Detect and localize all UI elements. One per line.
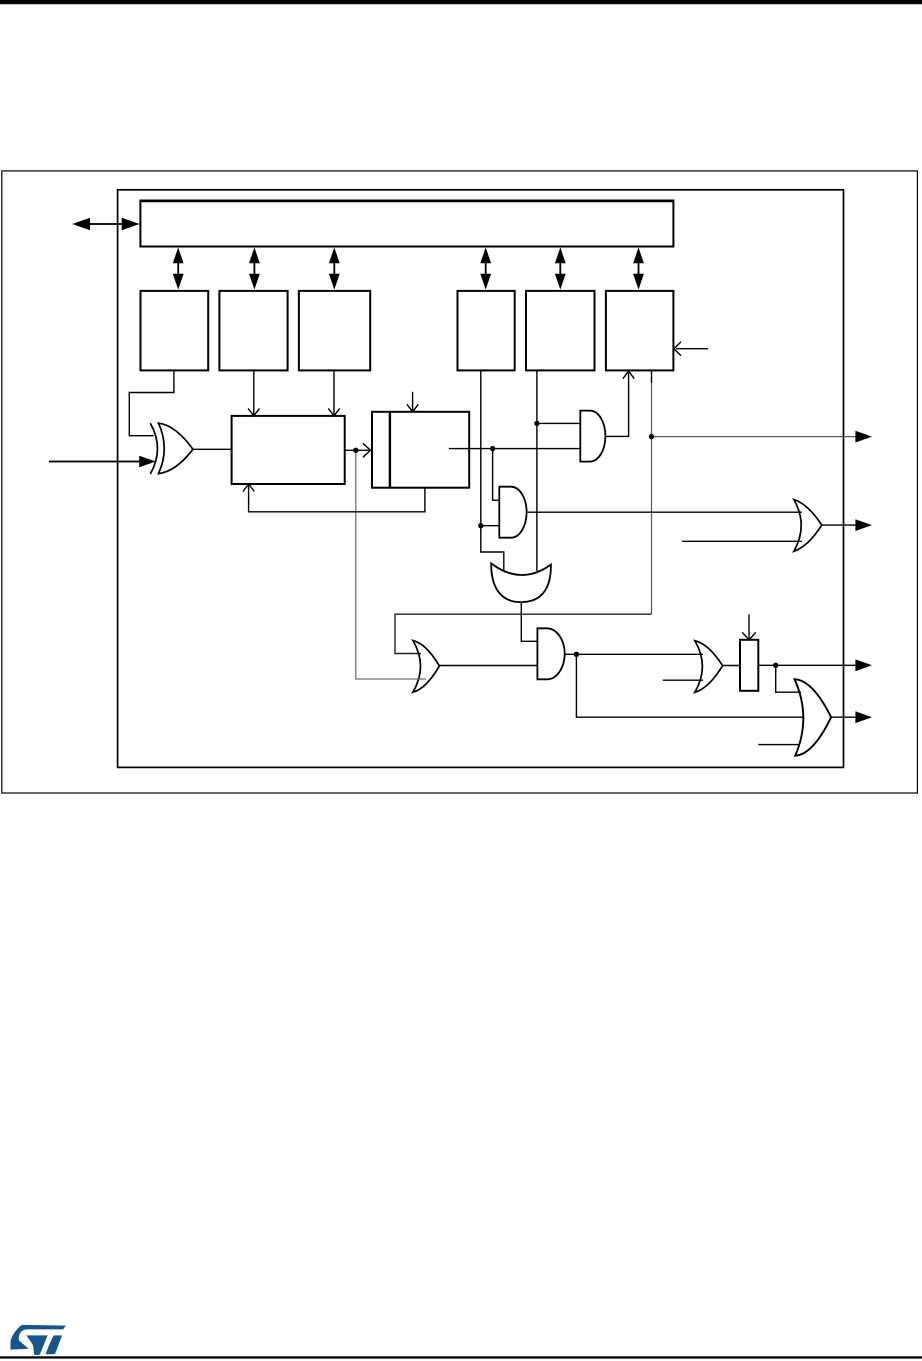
jog wire to middle AND upper input xyxy=(493,449,500,501)
vertical bus arrows to registers xyxy=(173,247,644,289)
prescaler output wire xyxy=(449,448,580,450)
arrowhead left into R6 right xyxy=(674,342,681,356)
lower AND gate xyxy=(537,628,564,679)
bottom-left OR gate xyxy=(413,641,440,693)
rect output wire 3 xyxy=(758,664,856,666)
down-facing OR gate xyxy=(491,563,551,602)
XOR gate xyxy=(150,423,193,474)
wire y614 to bottom-left OR xyxy=(395,614,652,653)
open arrowheads xyxy=(243,342,756,640)
wire R1 bottom to XOR top input xyxy=(129,371,174,436)
bottom-left OR output xyxy=(439,665,537,667)
page top rule xyxy=(0,0,922,4)
branch down to big OR top input xyxy=(776,665,801,692)
ST logo xyxy=(10,1325,65,1355)
middle AND gate xyxy=(499,487,526,538)
middle AND output to OR2 xyxy=(527,511,802,513)
R6 descender wire xyxy=(651,371,653,383)
OR3 output to rect xyxy=(723,665,740,667)
crescent OR output elbow xyxy=(521,602,537,641)
upper AND output wire up to R6 xyxy=(605,373,628,436)
gray wire from counter output down to bottom-left OR xyxy=(356,450,426,679)
register box R3 xyxy=(299,291,370,371)
figure outer frame xyxy=(2,171,918,793)
R4 descender wire xyxy=(481,371,504,572)
register box R5 xyxy=(526,291,595,371)
prescaler box xyxy=(372,412,469,488)
register box R4 xyxy=(458,291,515,371)
register box R6 xyxy=(606,291,674,371)
arrowhead into prescaler top xyxy=(407,404,418,412)
tap to upper AND top input xyxy=(537,422,580,424)
big OR lower input stub xyxy=(758,744,800,746)
arrowhead down into small rect top xyxy=(742,632,756,640)
arrowhead into counter from R3 xyxy=(328,408,339,416)
page bottom rule xyxy=(0,1356,922,1358)
bus register box xyxy=(140,201,673,247)
wire R3 to counter xyxy=(333,371,335,416)
free input arrow into prescaler top xyxy=(412,392,414,412)
wire R2 to counter xyxy=(253,371,255,416)
output arrowheads right side xyxy=(855,431,872,723)
branch down to big OR middle input xyxy=(576,654,803,717)
OR3 gate xyxy=(695,641,723,693)
external arrow into R6 right side xyxy=(676,348,708,350)
free arrow into small rect top xyxy=(748,614,750,639)
prescaler divider line xyxy=(389,412,391,488)
prescaler feedback wire to counter bottom xyxy=(249,484,425,512)
arrowhead up into counter bottom xyxy=(243,484,254,492)
arrowhead right into prescaler left xyxy=(363,443,371,457)
OR2 output wire 2 xyxy=(822,524,856,526)
bidirectional bus arrow (left) xyxy=(72,218,140,230)
upper AND gate xyxy=(580,411,605,462)
counter box xyxy=(232,416,345,484)
AND3 output wire to OR3 xyxy=(565,653,703,655)
small rectangle block xyxy=(740,640,758,691)
diagram inner border xyxy=(118,190,844,768)
OR2 gate xyxy=(794,500,822,552)
input wire with solid arrow into XOR xyxy=(49,461,140,463)
register box R2 xyxy=(219,291,287,371)
tap to middle AND lower input xyxy=(481,525,500,527)
XOR output wire xyxy=(193,448,232,450)
R5 descender wire xyxy=(536,371,538,571)
big OR gate xyxy=(795,679,832,756)
register box R1 xyxy=(141,291,209,371)
counter to prescaler wire xyxy=(345,449,371,451)
big OR output wire 4 xyxy=(831,716,856,718)
reset output wire 1 xyxy=(652,436,857,438)
OR3 lower input stub xyxy=(663,679,703,681)
arrowhead into counter from R2 xyxy=(248,408,259,416)
arrowhead up into R6 bottom xyxy=(623,371,634,379)
junction dots xyxy=(353,421,778,668)
OR2 lower input stub xyxy=(682,540,802,542)
